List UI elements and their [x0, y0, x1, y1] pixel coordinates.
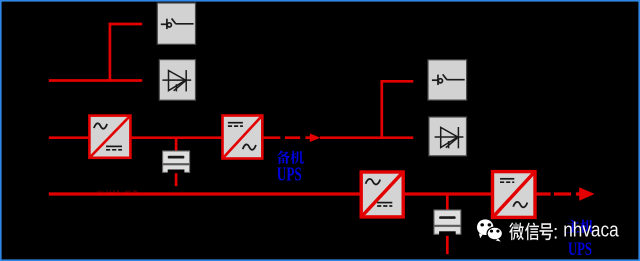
wire: battery BT1 stub lower — [175, 173, 178, 186]
inverter INV1 (DC/AC) — [223, 116, 263, 159]
wire: battery BT1 stub upper — [175, 138, 178, 152]
wire: input branch top horizontal to S1 — [109, 23, 143, 26]
thyristor D2 box — [429, 117, 467, 156]
wire: input branch lower horizontal to D1 — [49, 79, 142, 82]
wire: input branch vertical riser — [109, 23, 112, 82]
breaker S2 box — [428, 60, 467, 100]
inverter INV2 (DC/AC) — [493, 172, 536, 218]
battery BT2 — [434, 210, 461, 235]
wire: battery BT2 stub lower — [446, 236, 449, 254]
watermark WeChat icon — [477, 219, 502, 241]
wire: main bus 1 dashed segments — [263, 136, 312, 139]
label 主机 UPS (main UPS) — [566, 219, 594, 260]
wire: main bus 2 — [49, 192, 551, 195]
wire: right branch horizontal to S2 — [381, 80, 414, 83]
breaker S1 box — [157, 3, 195, 44]
wire: main bus 1 continuation to D2 — [320, 136, 413, 139]
watermark text 微信号: nhvaca — [509, 218, 619, 243]
wire: main bus 2 dashed segments — [554, 192, 581, 195]
wire: right branch vertical riser — [380, 80, 383, 139]
rectifier REC1 (AC/DC) — [89, 116, 130, 158]
svg-text:UPS: UPS — [568, 240, 592, 260]
faint label 主用UPS (dark red, behind bus) — [85, 182, 145, 198]
svg-text:nhvaca: nhvaca — [563, 218, 619, 241]
thyristor D1 box — [159, 60, 195, 101]
label 备机 UPS (standby UPS) — [276, 151, 303, 186]
arrowhead on bus 2 — [579, 187, 594, 200]
arrowhead on bus 1 — [310, 133, 321, 142]
svg-text:UPS: UPS — [277, 165, 302, 186]
svg-text::: : — [553, 222, 558, 243]
wire: battery BT2 stub upper — [446, 194, 449, 210]
rectifier REC2 (AC/DC) — [361, 172, 403, 217]
wire: main bus 1 solid segment — [49, 136, 263, 139]
battery BT1 — [163, 151, 190, 173]
